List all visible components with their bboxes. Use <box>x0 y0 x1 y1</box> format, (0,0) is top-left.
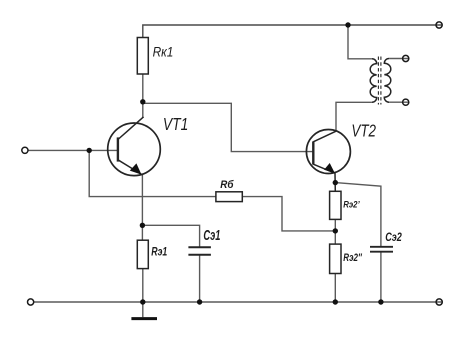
wire transformer primary feed <box>348 25 372 59</box>
svg-text:VT1: VT1 <box>163 114 188 134</box>
wire Re2' to Re2" <box>334 219 336 244</box>
node primary feed junction <box>345 22 350 27</box>
wire Ce2 bottom to rail <box>380 253 382 303</box>
svg-text:Cэ1: Cэ1 <box>203 227 220 244</box>
capacitor Ce1 <box>188 247 211 254</box>
svg-text:Rк1: Rк1 <box>153 44 174 59</box>
wire Re2" bottom to rail <box>334 274 336 303</box>
transformer T1 core <box>378 57 381 105</box>
capacitor Ce2 <box>370 247 393 252</box>
wire bottom rail <box>34 301 442 303</box>
resistor Rb <box>216 192 242 202</box>
svg-text:Rэ2″: Rэ2″ <box>343 252 362 264</box>
transistor VT1 <box>108 117 161 176</box>
node rail Re2 junction <box>333 299 338 304</box>
ground <box>131 302 157 319</box>
node rail ground junction <box>140 299 145 304</box>
wire emitter node to Ce1 <box>142 225 199 246</box>
resistor Re2" <box>330 244 341 273</box>
wire collector node to VT2 base <box>143 103 313 151</box>
wire emitter node to Ce2 <box>335 183 381 246</box>
terminal ground left <box>28 299 34 305</box>
terminal secondary top <box>403 55 409 61</box>
terminal bottom right <box>436 299 442 305</box>
node collector VT1 junction <box>140 99 145 104</box>
terminal input left <box>22 147 28 153</box>
resistor Rk1 <box>137 38 148 75</box>
svg-text:Rэ2’: Rэ2’ <box>343 200 360 211</box>
wire Re1 bottom to rail <box>142 269 144 302</box>
wire secondary bottom lead <box>389 101 409 103</box>
node VT1 emitter junction <box>140 223 145 228</box>
transformer T1 secondary winding <box>384 59 391 103</box>
wire Rb to Re2 divider node <box>242 197 335 231</box>
transistor VT2 <box>306 130 350 192</box>
wire VT1 emitter down to Re1 <box>141 175 143 240</box>
node divider junction <box>333 228 338 233</box>
wire input to VT1 base <box>28 149 118 151</box>
terminal secondary bottom <box>403 99 409 105</box>
wire Ce1 bottom to rail <box>199 255 201 302</box>
svg-text:VT2: VT2 <box>351 120 376 140</box>
svg-text:Rб: Rб <box>220 179 234 191</box>
wire base node down to Rb <box>89 150 216 196</box>
node VT1 base junction <box>87 148 92 153</box>
svg-text:Rэ1: Rэ1 <box>151 245 167 259</box>
wire Rk1 bottom to VT1 collector <box>142 74 144 118</box>
transformer T1 primary winding <box>370 59 377 103</box>
terminal supply top right <box>436 22 442 28</box>
resistor Re1 <box>137 240 148 268</box>
node VT2 emitter junction <box>333 180 338 185</box>
wire top rail <box>143 25 442 38</box>
wire transformer primary bottom to VT2 collector <box>336 102 372 131</box>
node rail Ce2 junction <box>378 299 383 304</box>
node rail Ce1 junction <box>197 299 202 304</box>
resistor Re2' <box>330 191 341 219</box>
svg-text:Cэ2: Cэ2 <box>385 230 402 244</box>
wire secondary top lead <box>389 58 409 60</box>
